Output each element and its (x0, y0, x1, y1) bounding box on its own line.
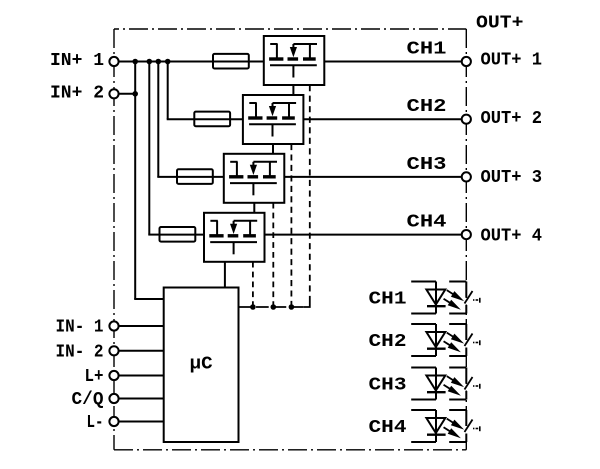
terminal IN- 1 (109, 321, 118, 330)
device outline dash-dot border (114, 29, 466, 450)
gate drive dashed line Q1 (304, 85, 310, 307)
svg-text:OUT+: OUT+ (476, 14, 524, 34)
junction dots gate bus (250, 304, 294, 310)
label L- (87, 413, 104, 433)
wire CH3 feed drop (157, 62, 177, 177)
gate drive dashed line Q4 (252, 262, 254, 307)
wire IN+2 to bus (119, 93, 136, 95)
wire C/Q to uC (119, 398, 164, 400)
label CH1 (LED) (369, 290, 407, 310)
label C/Q (72, 390, 104, 410)
svg-text:L-: L- (87, 413, 104, 433)
transistor switch Q2 (MOSFET block) (243, 95, 304, 144)
wire Q3 to Q4 stub (253, 203, 255, 213)
svg-text:CH1: CH1 (369, 290, 407, 310)
svg-text:CH3: CH3 (369, 376, 407, 396)
fuse F3 (177, 169, 213, 184)
fuse F1 (213, 54, 249, 69)
svg-text:OUT+ 1: OUT+ 1 (481, 50, 543, 70)
wire IN- 2 to uC (119, 350, 164, 352)
fuse F4 (160, 227, 196, 242)
LED indicator D4 (CH4) (411, 410, 480, 442)
wire fuse F2 through-wire (194, 118, 243, 120)
svg-text:OUT+ 4: OUT+ 4 (481, 227, 543, 247)
wire CH1 output (324, 61, 461, 63)
wire L- to uC (119, 421, 164, 423)
label OUT+ 1 (481, 50, 543, 70)
label OUT+ 2 (481, 109, 543, 129)
fuse F2 (194, 112, 230, 127)
label IN- 2 (56, 342, 104, 362)
label OUT+ 4 (481, 227, 543, 247)
wire uC supply drop (134, 62, 164, 300)
terminal IN+ 1 (109, 57, 118, 66)
wire CH4 feed drop (148, 62, 159, 235)
wire Q1 to Q2 stub (292, 85, 294, 95)
terminal OUT+ 3 (462, 172, 471, 181)
terminal L+ (109, 371, 118, 380)
svg-text:OUT+ 3: OUT+ 3 (481, 168, 543, 188)
svg-text:CH3: CH3 (407, 155, 447, 175)
terminal OUT+ 1 (462, 57, 471, 66)
label CH4 (LED) (369, 418, 407, 438)
terminal IN- 2 (109, 346, 118, 355)
svg-text:L+: L+ (85, 367, 104, 387)
wire Q4 to uC stub (224, 262, 226, 288)
label IN+ 2 (50, 83, 104, 103)
svg-text:C/Q: C/Q (72, 390, 104, 410)
label CH1 (output wire) (407, 40, 447, 60)
transistor switch Q3 (MOSFET block) (224, 154, 284, 203)
terminal L- (109, 417, 118, 426)
wire fuse F1 through-wire (213, 61, 264, 63)
terminal OUT+ 4 (462, 230, 471, 239)
svg-text:CH2: CH2 (369, 332, 407, 352)
svg-text:µC: µC (190, 354, 213, 374)
wire CH2 feed drop (167, 62, 195, 120)
transistor switch Q4 (MOSFET block) (204, 213, 265, 262)
terminal IN+ 2 (109, 89, 118, 98)
gate drive dashed line Q3 (272, 203, 274, 307)
terminal OUT+ 2 (462, 115, 471, 124)
label CH2 (LED) (369, 332, 407, 352)
wire IN+1 horizontal bus (119, 61, 213, 63)
label CH2 (output wire) (407, 97, 447, 117)
svg-text:IN+ 2: IN+ 2 (50, 83, 104, 103)
wire fuse F4 through-wire (160, 234, 205, 236)
label L+ (85, 367, 104, 387)
wire L+ to uC (119, 375, 164, 377)
label CH4 (output wire) (407, 213, 447, 233)
wire CH2 output (303, 118, 461, 120)
wire CH3 output (284, 176, 461, 178)
wire fuse F3 through-wire (177, 176, 224, 178)
wire Q2 to Q3 stub (272, 144, 274, 154)
wire CH4 output (265, 234, 462, 236)
svg-text:IN- 2: IN- 2 (56, 342, 104, 362)
svg-text:CH4: CH4 (407, 213, 447, 233)
svg-text:IN- 1: IN- 1 (56, 318, 104, 338)
label CH3 (output wire) (407, 155, 447, 175)
gate drive dashed line Q2 (290, 144, 292, 307)
microcontroller uC (164, 288, 239, 443)
LED indicator D3 (CH3) (411, 368, 480, 400)
terminal C/Q (109, 394, 118, 403)
svg-text:CH4: CH4 (369, 418, 407, 438)
LED indicator D2 (CH2) (411, 324, 480, 356)
svg-text:OUT+ 2: OUT+ 2 (481, 109, 543, 129)
label CH3 (LED) (369, 376, 407, 396)
svg-text:IN+ 1: IN+ 1 (50, 51, 104, 71)
junction dots on IN+ bus (132, 59, 170, 97)
svg-text:CH1: CH1 (407, 40, 447, 60)
gate drive dashed bus from uC (239, 306, 304, 308)
label OUT+ (net) (476, 14, 524, 34)
label OUT+ 3 (481, 168, 543, 188)
label IN+ 1 (50, 51, 104, 71)
LED indicator D1 (CH1) (411, 282, 480, 314)
svg-text:CH2: CH2 (407, 97, 447, 117)
wire IN- 1 to uC (119, 325, 164, 327)
transistor switch Q1 (MOSFET block) (264, 36, 325, 85)
label IN- 1 (56, 318, 104, 338)
